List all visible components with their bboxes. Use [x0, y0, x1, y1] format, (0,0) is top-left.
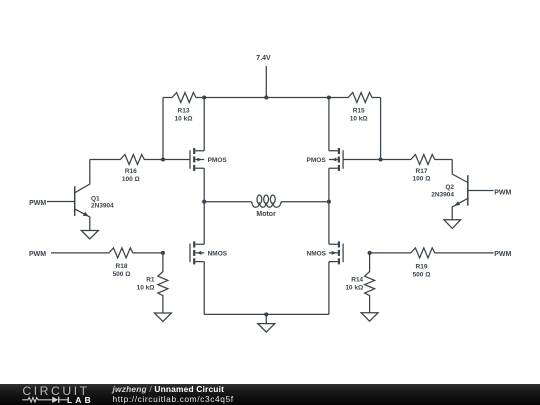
wire right half-bridge mid vertical — [328, 168, 330, 244]
svg-text:PMOS: PMOS — [208, 157, 228, 164]
resistor R13 value label — [175, 107, 193, 122]
wire left NMOS source vertical — [203, 262, 205, 315]
label PWM right-bottom — [494, 251, 511, 258]
wire motor lead left — [204, 201, 252, 203]
transistor M4 NMOS right — [329, 241, 343, 264]
ground center — [258, 324, 275, 333]
svg-text:R17: R17 — [416, 168, 428, 175]
svg-text:Q2: Q2 — [445, 184, 454, 191]
svg-text:500 Ω: 500 Ω — [413, 271, 431, 278]
transistor Q1 2N3904 — [75, 160, 90, 231]
svg-text:R14: R14 — [351, 277, 363, 284]
ground under Q2 — [444, 220, 461, 229]
CircuitLab wordmark LAB — [67, 396, 94, 405]
wire top rail — [204, 97, 329, 99]
label PWM left-bottom — [29, 251, 46, 258]
footer credit text — [113, 385, 234, 404]
svg-text:100 Ω: 100 Ω — [122, 176, 140, 183]
svg-text:PWM: PWM — [494, 251, 511, 258]
inductor Motor coil — [252, 195, 281, 207]
resistor R16 — [90, 155, 163, 165]
label Q2 2N3904 — [431, 184, 454, 199]
wire center ground stem — [265, 314, 267, 323]
svg-text:PWM: PWM — [494, 189, 511, 196]
ground under Q1 — [81, 231, 98, 240]
wire left gate feed vertical — [162, 98, 164, 160]
logo wire to LAB — [59, 399, 67, 401]
transistor M3 NMOS left — [190, 241, 204, 264]
svg-text:R13: R13 — [178, 107, 190, 114]
transistor Q2 2N3904 — [452, 160, 468, 220]
svg-text:NMOS: NMOS — [307, 251, 327, 258]
node supply label 7.4V — [256, 55, 271, 62]
wire bottom rail — [204, 313, 329, 315]
wire motor lead right — [281, 201, 329, 203]
svg-text:10 kΩ: 10 kΩ — [345, 285, 363, 292]
wire right NMOS source vertical — [328, 262, 330, 315]
footer bar — [0, 384, 540, 405]
svg-text:R19: R19 — [416, 263, 428, 270]
wire left PMOS drain to rail — [203, 98, 205, 151]
node left PMOS gate junction — [161, 157, 165, 161]
resistor R18 — [51, 248, 163, 258]
resistor R18 value label — [113, 263, 131, 278]
svg-text:10 kΩ: 10 kΩ — [350, 115, 368, 122]
wire right PMOS gate lead — [343, 159, 381, 161]
resistor R14 value label — [345, 277, 363, 292]
logo diode — [52, 397, 59, 403]
resistor R17 — [381, 155, 453, 165]
svg-text:R15: R15 — [353, 107, 365, 114]
node rail-left junction — [202, 95, 206, 99]
svg-text:R1: R1 — [146, 277, 155, 284]
resistor R15 — [329, 93, 381, 103]
CircuitLab wordmark CIRCUIT — [22, 386, 89, 396]
resistor R16 value label — [122, 168, 140, 183]
node rail-right junction — [327, 95, 331, 99]
svg-text:PMOS: PMOS — [307, 157, 327, 164]
wire left half-bridge mid vertical — [203, 168, 205, 244]
svg-text:NMOS: NMOS — [208, 251, 228, 258]
CircuitLab logo circuit glyph: wire, resistor, diode — [0, 384, 100, 405]
svg-text:R16: R16 — [125, 168, 137, 175]
ground under R1 — [154, 313, 171, 322]
resistor R15 value label — [350, 107, 368, 122]
node bottom rail junction — [264, 312, 268, 316]
wire right gate feed vertical — [380, 98, 382, 160]
ground under R14 — [361, 313, 378, 322]
node motor right junction — [327, 200, 331, 204]
svg-text:Motor: Motor — [256, 211, 276, 218]
transistor M2 PMOS right — [329, 148, 343, 171]
wire left PMOS gate lead — [163, 159, 190, 161]
svg-text:10 kΩ: 10 kΩ — [175, 115, 193, 122]
svg-text:R18: R18 — [116, 263, 128, 270]
node right PMOS gate junction — [379, 157, 383, 161]
node supply junction — [264, 95, 268, 99]
wire Q2 base lead — [468, 190, 494, 192]
wire Q1 base lead — [47, 201, 75, 203]
resistor R14 — [365, 253, 375, 313]
svg-text:7.4V: 7.4V — [256, 55, 271, 62]
node motor left junction — [202, 200, 206, 204]
svg-text:2N3904: 2N3904 — [91, 202, 114, 209]
op-amp none: transistor M1 PMOS left — [190, 148, 204, 171]
resistor R19 — [370, 248, 494, 258]
node right NMOS gate junction — [368, 251, 372, 255]
svg-text:PWM: PWM — [29, 200, 46, 207]
node left NMOS gate junction — [161, 251, 165, 255]
svg-text:PWM: PWM — [29, 251, 46, 258]
logo wire + resistor zigzag — [22, 398, 52, 403]
resistor R13 — [163, 93, 204, 103]
svg-text:10 kΩ: 10 kΩ — [137, 285, 155, 292]
label NMOS left — [208, 251, 228, 258]
label PWM left-top — [29, 200, 46, 207]
label NMOS right — [307, 251, 327, 258]
wire 7.4V supply stem — [265, 66, 267, 98]
label Q1 2N3904 — [91, 196, 114, 210]
resistor R19 value label — [413, 263, 431, 278]
svg-text:100 Ω: 100 Ω — [413, 176, 431, 183]
svg-text:500 Ω: 500 Ω — [113, 271, 131, 278]
label Motor — [256, 211, 276, 218]
label PWM right-top — [494, 189, 511, 196]
resistor R17 value label — [413, 168, 431, 183]
resistor R1 value label — [137, 277, 155, 292]
resistor R1 — [158, 253, 168, 313]
label PMOS left — [208, 157, 228, 164]
label PMOS right — [307, 157, 327, 164]
wire right PMOS drain to rail — [328, 98, 330, 151]
svg-text:2N3904: 2N3904 — [431, 192, 454, 199]
